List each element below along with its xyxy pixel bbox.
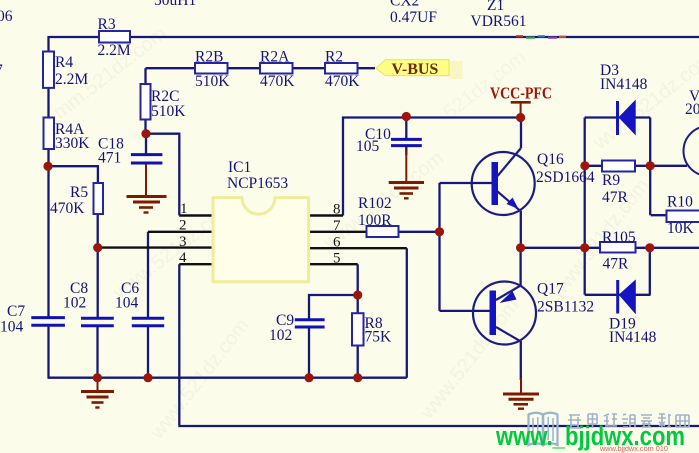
svg-text:R2: R2 — [325, 49, 343, 66]
svg-text:C7: C7 — [7, 303, 25, 320]
svg-text:R9: R9 — [602, 172, 620, 189]
svg-text:104: 104 — [0, 319, 24, 336]
svg-text:IC1: IC1 — [228, 159, 251, 176]
svg-text:8: 8 — [333, 202, 341, 218]
svg-text:105: 105 — [356, 138, 380, 155]
svg-text:470K: 470K — [260, 73, 295, 90]
svg-text:6: 6 — [333, 235, 341, 251]
svg-text:7: 7 — [333, 218, 341, 234]
svg-text:1: 1 — [180, 201, 188, 217]
svg-text:7: 7 — [0, 62, 3, 79]
svg-text:3: 3 — [179, 234, 187, 250]
svg-text:2: 2 — [179, 218, 187, 234]
svg-text:V-BUS: V-BUS — [392, 61, 439, 78]
svg-text:470K: 470K — [325, 73, 360, 90]
svg-text:50uH1: 50uH1 — [154, 0, 196, 9]
svg-text:510K: 510K — [151, 103, 186, 120]
svg-text:100R: 100R — [358, 212, 392, 229]
svg-text:2SD1664: 2SD1664 — [536, 169, 595, 186]
svg-text:VCC-PFC: VCC-PFC — [490, 84, 552, 103]
svg-text:www.bjjdwx.com 010: www.bjjdwx.com 010 — [599, 444, 668, 453]
svg-text:0.47UF: 0.47UF — [390, 9, 437, 26]
svg-text:470K: 470K — [50, 200, 85, 217]
svg-text:R102: R102 — [358, 195, 392, 212]
svg-text:06: 06 — [0, 8, 13, 25]
svg-text:104: 104 — [115, 295, 139, 312]
svg-text:R10: R10 — [667, 194, 693, 211]
svg-text:47R: 47R — [603, 256, 630, 273]
svg-text:R3: R3 — [98, 16, 116, 33]
svg-text:2SB1132: 2SB1132 — [537, 299, 594, 316]
svg-text:102: 102 — [63, 295, 86, 312]
svg-text:47R: 47R — [602, 189, 629, 206]
svg-text:R5: R5 — [70, 184, 88, 201]
svg-text:2.2M: 2.2M — [55, 71, 88, 88]
svg-text:471: 471 — [98, 150, 121, 167]
svg-text:VDR561: VDR561 — [471, 13, 527, 30]
svg-text:R2A: R2A — [260, 49, 290, 66]
svg-text:IN4148: IN4148 — [609, 329, 657, 346]
svg-text:510K: 510K — [195, 73, 230, 90]
svg-text:Q17: Q17 — [537, 281, 564, 298]
svg-text:IN4148: IN4148 — [600, 76, 648, 93]
svg-text:75K: 75K — [365, 329, 393, 346]
svg-text:4: 4 — [179, 250, 187, 266]
svg-text:20: 20 — [685, 101, 699, 118]
svg-text:Q16: Q16 — [537, 151, 564, 168]
svg-text:R105: R105 — [602, 229, 636, 246]
svg-text:NCP1653: NCP1653 — [227, 175, 288, 192]
svg-text:R2B: R2B — [195, 49, 223, 66]
svg-text:102: 102 — [269, 327, 292, 344]
svg-text:Z1: Z1 — [487, 0, 504, 14]
svg-text:330K: 330K — [55, 135, 90, 152]
svg-text:10K: 10K — [667, 220, 695, 237]
svg-text:5: 5 — [333, 251, 341, 267]
svg-text:2.2M: 2.2M — [98, 42, 131, 59]
svg-text:R4: R4 — [55, 54, 73, 71]
